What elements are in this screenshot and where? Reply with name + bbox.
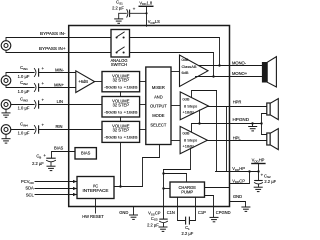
- connector J3 (LIN jack): [1, 100, 11, 110]
- I2C interface block: [77, 177, 114, 199]
- wire charge pump top to VSSCP: [164, 174, 187, 183]
- svg-text:GND: GND: [119, 210, 128, 215]
- arrowhead PCVDD: [73, 180, 77, 183]
- svg-text:HW RESET: HW RESET: [82, 214, 104, 219]
- wire GND bottom: [133, 207, 135, 215]
- svg-text:1.0 µF: 1.0 µF: [18, 106, 30, 111]
- ground (HPGND): [248, 124, 257, 131]
- svg-text:CIN3: CIN3: [20, 97, 28, 103]
- svg-text:SELECT: SELECT: [150, 123, 166, 128]
- node I2C/volume control: [119, 185, 121, 187]
- svg-text:PUMP: PUMP: [181, 190, 193, 195]
- wire RIN to volume box3: [39, 129, 102, 131]
- speaker LS2 (HPR): [267, 99, 279, 120]
- connector J2 (MIN differential jack): [1, 76, 11, 86]
- power rail VDDHP: [251, 158, 265, 172]
- wire MIN+ input: [6, 85, 34, 87]
- wire mixer to HPR amp: [171, 105, 180, 107]
- wire RIN input: [11, 129, 34, 131]
- wire HPL amp to VSSCP rail: [164, 148, 191, 169]
- svg-text:2.2 µF: 2.2 µF: [32, 161, 44, 166]
- node bypass/mono+: [212, 75, 214, 77]
- wire mixer to mono amp: [171, 71, 180, 73]
- svg-text:2.2 µF: 2.2 µF: [147, 222, 159, 227]
- svg-text:2.2 µF: 2.2 µF: [112, 5, 124, 10]
- wire HPR output: [208, 106, 266, 108]
- svg-text:AND: AND: [154, 94, 163, 99]
- wire CPGND pin: [213, 207, 215, 218]
- wire MIN- to amp: [39, 72, 76, 74]
- ground (CS3): [159, 227, 168, 231]
- svg-text:CB: CB: [36, 154, 41, 160]
- wire BYPASS IN+: [6, 51, 111, 53]
- ground (GND right): [241, 207, 250, 211]
- wire I2C control bus: [114, 145, 160, 187]
- wire BIAS pin: [52, 152, 76, 158]
- svg-text:HPR: HPR: [233, 100, 242, 105]
- capacitor CIN4 1.0uF: [18, 122, 45, 136]
- svg-text:HPGND: HPGND: [233, 117, 250, 122]
- svg-text:BYPASS IN+: BYPASS IN+: [39, 46, 66, 51]
- svg-text:MONO-: MONO-: [232, 61, 247, 66]
- svg-text:HPL: HPL: [233, 136, 242, 141]
- svg-text:32 STEP: 32 STEP: [113, 127, 130, 132]
- svg-text:0dB: 0dB: [182, 57, 189, 62]
- svg-text:8 Steps: 8 Steps: [184, 138, 197, 143]
- power rail VDD1.8: [139, 0, 154, 6]
- svg-text:0dB: 0dB: [183, 96, 190, 101]
- svg-text:GND: GND: [233, 194, 242, 199]
- capacitor CB 2.2uF: [32, 153, 56, 166]
- wire HPL speaker top terminal to HPGND: [262, 124, 267, 135]
- node VDDHP rail/cap tie: [257, 170, 259, 172]
- svg-text:0dB: 0dB: [183, 130, 190, 135]
- BIAS block: [75, 148, 96, 159]
- wire MONO- output: [199, 65, 262, 67]
- op-amp U4 HPL: [180, 126, 207, 153]
- op-amp A1 +6dB: [76, 71, 95, 93]
- svg-text:CIN1: CIN1: [20, 65, 28, 71]
- svg-text:8 Steps: 8 Steps: [184, 104, 197, 109]
- switch S2 (bypass in+): [116, 47, 125, 54]
- svg-text:SWITCH: SWITCH: [111, 62, 127, 67]
- node VDD1.8/CS1 junction: [145, 12, 147, 14]
- wire MIN- input: [6, 73, 34, 76]
- arrowhead SCL: [73, 193, 77, 196]
- wire +6dB out to volume box1: [95, 81, 102, 83]
- svg-text:BIAS: BIAS: [54, 146, 64, 151]
- arrowhead SDA: [73, 187, 77, 190]
- wire HPR-HPL feedback vertical: [226, 107, 228, 172]
- capacitor C1 2.2uF: [182, 217, 194, 236]
- svg-text:LIN: LIN: [57, 99, 63, 104]
- wire mixer to HPL amp: [171, 140, 180, 142]
- wire GND right: [230, 202, 246, 207]
- node bypass/mono-: [218, 64, 220, 66]
- svg-text:CS3: CS3: [151, 216, 158, 222]
- wire internal VDD vertical: [216, 91, 218, 172]
- svg-text:32 STEP: 32 STEP: [113, 77, 130, 82]
- charge pump block: [170, 182, 205, 197]
- svg-text:1.0 µF: 1.0 µF: [18, 74, 30, 79]
- op-amp U3 HPR: [180, 92, 208, 120]
- svg-text:CIN2: CIN2: [20, 80, 28, 86]
- svg-text:-60dB to +18dB: -60dB to +18dB: [104, 109, 138, 114]
- svg-text:MIXER: MIXER: [152, 85, 165, 90]
- wire LIN to volume box2: [39, 104, 102, 106]
- svg-text:C1P: C1P: [198, 210, 206, 215]
- svg-text:VDD1.8: VDD1.8: [139, 0, 152, 6]
- ground (GND bottom): [129, 215, 138, 219]
- svg-text:1.0 µF: 1.0 µF: [18, 131, 30, 136]
- wire bypass in- to MONO-: [130, 38, 220, 66]
- wire volume1 out: [140, 81, 146, 83]
- wire volume2-volume3 stub: [120, 117, 122, 121]
- wire charge pump left to VSSCP: [164, 188, 171, 190]
- node HPGND junction: [198, 122, 200, 124]
- wire volume2 out: [140, 104, 146, 106]
- svg-text:PCVDD: PCVDD: [21, 179, 35, 185]
- wire HPGND to HPR lower slope: [199, 110, 201, 124]
- ground (LIN jack): [2, 109, 11, 117]
- svg-text:BIAS: BIAS: [81, 151, 91, 156]
- wire bypass in+ to MONO+: [130, 53, 214, 77]
- wire LIN input: [11, 104, 34, 106]
- wire HW RESET: [95, 199, 97, 214]
- svg-text:VDDHP: VDDHP: [252, 158, 265, 164]
- chip outline U1: [69, 26, 230, 207]
- ground (RIN jack): [2, 134, 11, 143]
- svg-text:SCL: SCL: [26, 192, 35, 197]
- node HPGND speaker tap: [260, 122, 262, 124]
- svg-text:C1: C1: [185, 225, 190, 231]
- svg-text:CPGND: CPGND: [216, 210, 231, 215]
- svg-text:+6dB: +6dB: [78, 79, 88, 84]
- svg-text:-60dB to +18dB: -60dB to +18dB: [104, 84, 138, 89]
- wire HPR feedback loop: [192, 91, 217, 98]
- speaker LS3 (HPL): [267, 129, 279, 150]
- wire volume3 to I2C control bus: [120, 142, 122, 186]
- wire VDD1.8 to VDDLS pin: [146, 6, 148, 26]
- svg-text:1.0 µF: 1.0 µF: [18, 89, 30, 94]
- volume box 1: [102, 72, 140, 92]
- svg-text:+18dB: +18dB: [183, 143, 195, 148]
- wire volume3 out: [140, 129, 146, 131]
- svg-text:MODE: MODE: [152, 113, 165, 118]
- svg-text:MIN+: MIN+: [54, 82, 65, 87]
- op-amp U2 ClassAB mono: [180, 55, 209, 87]
- volume box 2: [102, 97, 140, 118]
- capacitor CIN1 1.0uF: [18, 65, 45, 79]
- wire VDDHP: [216, 171, 259, 173]
- ground (CS1): [114, 19, 123, 23]
- wire charge pump to CPGND: [205, 196, 214, 207]
- capacitor CIN3 1.0uF: [18, 97, 45, 111]
- node VSSCP/cp-left: [162, 187, 164, 189]
- volume box 3: [102, 121, 140, 142]
- wire BYPASS IN-: [6, 38, 111, 41]
- svg-text:2.2 µF: 2.2 µF: [264, 179, 276, 184]
- wire SDA: [35, 188, 77, 190]
- svg-text:MONO+: MONO+: [232, 71, 248, 76]
- svg-text:VDDLS: VDDLS: [148, 19, 160, 25]
- svg-text:6dB: 6dB: [182, 70, 189, 75]
- wire MONO+ output: [196, 76, 262, 78]
- wire HPL output: [207, 140, 266, 142]
- svg-text:+18dB: +18dB: [183, 109, 195, 114]
- wire HPGND net: [192, 124, 262, 133]
- wire charge pump VDD feed: [205, 187, 230, 189]
- ground (CPGND): [210, 217, 219, 221]
- wire volume1-volume2 stub: [120, 92, 122, 97]
- wire VSSCP vertical: [163, 170, 165, 207]
- node VDDHP/VDDCP tie: [248, 170, 250, 172]
- svg-text:INTERFACE: INTERFACE: [83, 188, 109, 193]
- connector J1 (bypass input jack): [1, 41, 11, 51]
- wire SCL: [35, 194, 77, 196]
- wire VSSCP pin to CS3: [163, 207, 165, 219]
- svg-text:RIN: RIN: [55, 124, 62, 129]
- wire PCVDD: [35, 181, 77, 183]
- wire MIN+ to amp: [39, 87, 76, 89]
- svg-text:BYPASS IN-: BYPASS IN-: [40, 31, 66, 36]
- capacitor CIN2 1.0uF: [18, 80, 45, 94]
- svg-text:2.2 µF: 2.2 µF: [182, 231, 194, 236]
- wire HPR speaker return: [262, 114, 267, 124]
- svg-text:MIN-: MIN-: [55, 67, 65, 72]
- svg-text:CIN4: CIN4: [20, 122, 28, 128]
- wire VDDCP to VDDHP: [230, 172, 250, 184]
- svg-text:OUTPUT: OUTPUT: [150, 104, 167, 109]
- mixer block: [146, 67, 171, 145]
- switch S1 (bypass in-): [116, 32, 125, 39]
- ground (CB): [47, 166, 56, 170]
- analog switch box: [111, 30, 130, 58]
- wire C1N pin: [178, 197, 185, 220]
- speaker LS1 (mono): [262, 57, 277, 87]
- svg-text:32 STEP: 32 STEP: [113, 102, 130, 107]
- svg-text:-60dB to +18dB: -60dB to +18dB: [104, 135, 138, 140]
- node HPGND ground tap: [251, 122, 253, 124]
- wire C1P pin: [190, 197, 195, 220]
- node VSSCP/cp-top: [162, 172, 164, 174]
- capacitor CS2 2.2uF: [254, 172, 276, 187]
- svg-text:SDA: SDA: [25, 186, 34, 191]
- svg-text:ClassAB: ClassAB: [182, 64, 197, 69]
- connector J4 (RIN jack): [1, 125, 11, 135]
- capacitor CS1 2.2uF: [112, 0, 146, 18]
- svg-text:C1N: C1N: [167, 210, 175, 215]
- ground (CS2): [254, 187, 263, 191]
- capacitor CS3 2.2uF: [147, 216, 168, 227]
